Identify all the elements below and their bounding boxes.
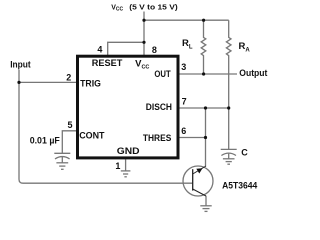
ground under Q1 (200, 205, 211, 207)
svg-text:THRES: THRES (143, 133, 171, 144)
transistor Q1 internals (192, 169, 194, 190)
wire VCC drop (143, 12, 145, 43)
node dot rail-RL (202, 19, 205, 22)
node dot pin4/8 connector (142, 41, 145, 44)
svg-text:DISCH: DISCH (146, 102, 172, 113)
svg-text:(5 V to 15 V): (5 V to 15 V) (129, 4, 177, 11)
wire Q1 emitter to ground (205, 196, 207, 206)
svg-text:0.01 µF: 0.01 µF (30, 135, 60, 146)
IC U1 box (78, 56, 179, 158)
svg-text:OUT: OUT (154, 69, 170, 80)
svg-text:3: 3 (181, 62, 186, 72)
wire DISCH pin7 (180, 107, 229, 109)
wire CONT pin5 (62, 131, 76, 154)
svg-text:Output: Output (239, 68, 268, 79)
svg-text:2: 2 (66, 73, 71, 83)
wire pin8 stub (143, 42, 145, 55)
svg-text:Input: Input (10, 60, 31, 71)
resistor RL (201, 20, 206, 74)
wire node DISCH-THRES-Q1 (205, 108, 207, 166)
svg-text:TRIG: TRIG (80, 79, 101, 90)
node dot DISCH-node (204, 106, 207, 109)
svg-text:GND: GND (117, 146, 140, 157)
svg-text:VCC: VCC (111, 4, 123, 12)
node dot DISCH-RA (227, 106, 230, 109)
transistor Q1 circle (183, 166, 213, 196)
svg-text:CONT: CONT (79, 130, 104, 141)
wire pin4 connector (108, 42, 144, 55)
svg-text:6: 6 (181, 126, 186, 136)
wire Input to Q1 base (19, 70, 193, 183)
transistor Q1 arrow (196, 168, 202, 173)
svg-text:RESET: RESET (92, 58, 123, 69)
capacitor C plates (221, 148, 237, 150)
ground under C3 (56, 162, 68, 164)
node dot Input-TRIG (17, 81, 20, 84)
svg-text:4: 4 (97, 44, 102, 54)
wire TRIG pin2 (19, 81, 76, 83)
wire VCC rail (144, 19, 229, 21)
ground under pin1 (121, 170, 131, 172)
node dot OUT-RL (202, 72, 205, 75)
svg-text:C: C (241, 147, 248, 157)
svg-text:7: 7 (182, 97, 187, 107)
ground under C (223, 158, 235, 160)
node dot rail-drop (142, 19, 145, 22)
svg-text:5: 5 (67, 120, 72, 130)
capacitor C3 0.01uF plates (54, 152, 70, 154)
svg-text:1: 1 (115, 161, 120, 171)
wire THRES pin6 (180, 137, 206, 139)
svg-text:8: 8 (152, 45, 157, 55)
svg-text:A5T3644: A5T3644 (222, 180, 258, 191)
wire OUT pin3 (180, 73, 238, 75)
wire GND pin1 stub (125, 159, 127, 171)
node dot THRES-node (204, 136, 207, 139)
resistor RA (226, 20, 231, 149)
